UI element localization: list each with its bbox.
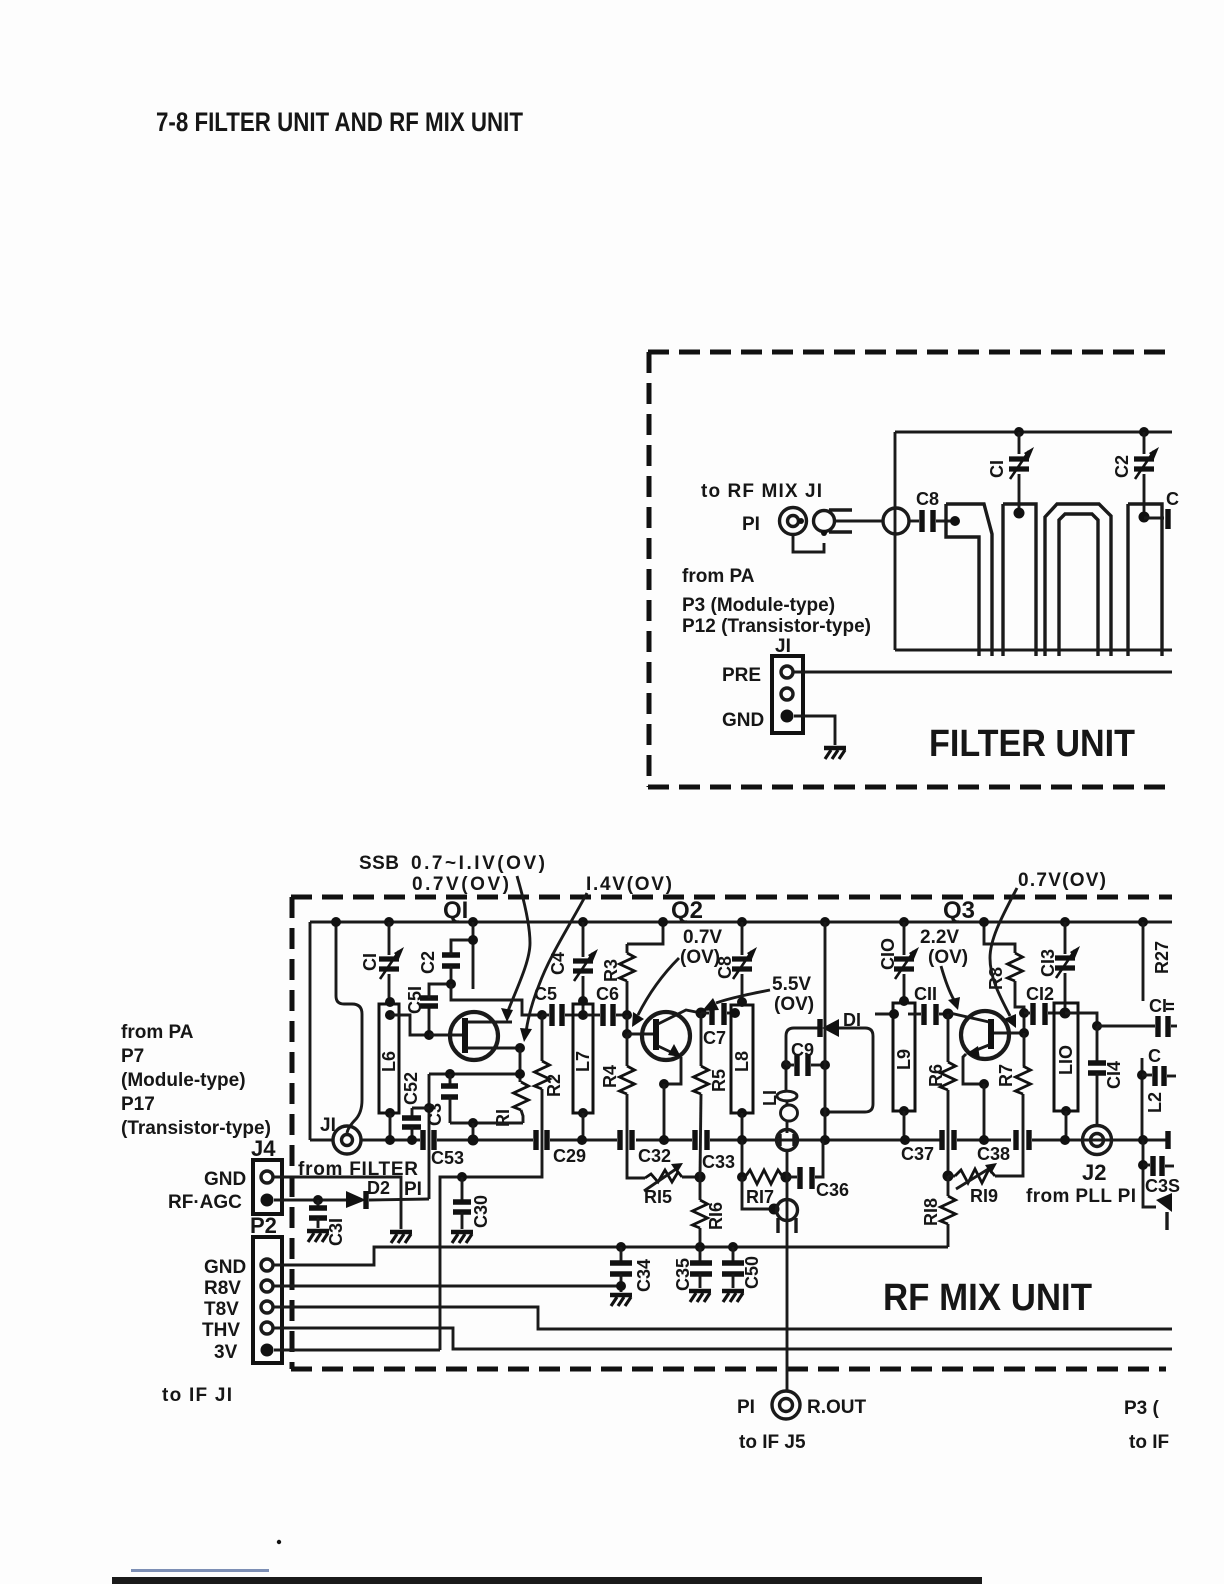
ground C30: [451, 1232, 473, 1243]
svg-text:J2: J2: [1082, 1160, 1106, 1185]
rf mix dashed border: [291, 897, 1172, 1369]
capacitor C2 (rf mix): [418, 940, 471, 984]
svg-text:RI8: RI8: [921, 1198, 941, 1226]
svg-text:DI: DI: [843, 1010, 861, 1030]
svg-text:JI: JI: [775, 636, 791, 657]
capacitor C51: [405, 984, 448, 1040]
connector P2: [253, 1237, 282, 1363]
inductor L7: [573, 996, 593, 1145]
wire L10 node to C14 C15: [1065, 1013, 1097, 1026]
svg-text:(OV): (OV): [928, 947, 968, 968]
svg-text:to IF J5: to IF J5: [739, 1432, 806, 1453]
scan speckle: [277, 1540, 281, 1544]
svg-text:THV: THV: [202, 1320, 240, 1341]
svg-text:from PA: from PA: [121, 1022, 194, 1043]
capacitor C38: [977, 1130, 1029, 1164]
wire C6 node to base: [626, 1015, 629, 1034]
svg-text:GND: GND: [204, 1257, 246, 1278]
wire RF AGC line: [274, 1199, 346, 1202]
resistor R5: [694, 1008, 730, 1178]
svg-text:L8: L8: [732, 1051, 752, 1072]
node C8 to finger A: [950, 516, 960, 526]
svg-text:RF·AGC: RF·AGC: [168, 1192, 242, 1213]
svg-text:C4: C4: [548, 952, 568, 975]
wire P2 R8V line: [274, 1285, 621, 1288]
inductor L10: [1054, 1003, 1078, 1145]
svg-text:to IF JI: to IF JI: [162, 1385, 232, 1406]
svg-text:R27: R27: [1152, 941, 1172, 974]
resistor R8: [979, 917, 1024, 1033]
wire P2 THV line: [274, 1328, 1172, 1349]
node C9 left: [781, 1060, 791, 1070]
resistor R16: [693, 1177, 727, 1246]
stripline finger C hairpin: [1045, 504, 1111, 656]
capacitor C15 (cut): [1097, 996, 1177, 1037]
svg-text:C8: C8: [916, 489, 939, 509]
trimmer C8 (rf mix): [715, 917, 757, 1002]
node R17 C36 junction: [781, 1172, 792, 1183]
svg-text:2.2V: 2.2V: [920, 927, 959, 948]
capacitor C31: [309, 1195, 346, 1246]
capacitor C52: [401, 1072, 429, 1145]
node Q3 base: [1019, 1028, 1029, 1038]
capacitor C3: [425, 1074, 458, 1126]
wire J4 GND line: [274, 1177, 401, 1229]
scan bottom band: [112, 1577, 982, 1584]
svg-text:CII: CII: [914, 984, 937, 1004]
svg-text:GND: GND: [204, 1169, 246, 1190]
svg-text:P7: P7: [121, 1046, 144, 1067]
capacitor C14: [1088, 1026, 1124, 1126]
svg-text:C5: C5: [534, 984, 557, 1004]
svg-text:QI: QI: [443, 897, 468, 924]
wire J1 GND to ground: [794, 716, 835, 745]
variable resistor R19: [948, 1094, 1023, 1206]
node Q1 source: [515, 1043, 525, 1053]
resistor R4: [600, 1034, 645, 1178]
svg-text:C3S: C3S: [1145, 1176, 1180, 1196]
svg-text:LI: LI: [760, 1090, 780, 1106]
svg-text:J4: J4: [251, 1136, 276, 1161]
wire P2 3V line: [274, 1349, 440, 1352]
rail end tick: [1165, 1131, 1170, 1149]
ground (filter J1): [824, 748, 846, 759]
svg-text:C2: C2: [418, 951, 438, 974]
wire drain jog to signal line: [451, 984, 542, 1015]
transistor Q3 (mirrored): [950, 1011, 1024, 1084]
scan blue line: [131, 1569, 269, 1572]
trimmer C10: [878, 917, 919, 1001]
svg-text:CI: CI: [987, 460, 1007, 478]
connector J2: [1083, 1126, 1112, 1155]
svg-text:R3: R3: [601, 959, 621, 982]
feedthrough bead (bottom rail): [777, 1130, 798, 1151]
leader to C7 node: [702, 990, 770, 1011]
stripline finger D: [1128, 504, 1162, 656]
resistor R27: [1138, 917, 1172, 1001]
svg-text:RF MIX UNIT: RF MIX UNIT: [883, 1277, 1092, 1319]
wire P2 T8V line: [274, 1307, 1172, 1329]
svg-text:R.OUT: R.OUT: [807, 1397, 867, 1418]
svg-text:C: C: [1166, 489, 1179, 509]
capacitor C30: [453, 1172, 491, 1229]
svg-text:C38: C38: [977, 1144, 1010, 1164]
svg-text:CI: CI: [1149, 996, 1167, 1016]
wire top rail: [310, 921, 1172, 924]
svg-text:CIO: CIO: [878, 938, 898, 970]
svg-text:CI4: CI4: [1104, 1061, 1124, 1089]
wire PRE line: [794, 671, 1172, 674]
wire C2 node to cut capacitor C3: [1144, 517, 1164, 520]
wire filter bottom line: [895, 649, 1172, 652]
svg-text:from PLL PI: from PLL PI: [1026, 1186, 1136, 1207]
wire injection vertical: [820, 917, 830, 1145]
connector P1 (filter): [780, 508, 853, 537]
wire drain stub from rail: [468, 917, 478, 989]
svg-text:D2: D2: [367, 1178, 390, 1198]
filter unit dashed border: [648, 352, 1172, 787]
node C2 bottom junction: [446, 979, 456, 989]
svg-text:C52: C52: [401, 1072, 421, 1105]
ground J4 GND: [390, 1232, 412, 1243]
resistor R7: [996, 1033, 1031, 1094]
svg-text:RI9: RI9: [970, 1186, 998, 1206]
resistor R17: [737, 1140, 783, 1207]
capacitor C5: [534, 984, 580, 1026]
resistor R3: [601, 917, 668, 1015]
node C11 R6 collector junction: [943, 1009, 954, 1020]
wire J1 riser to top rail: [336, 922, 362, 1133]
node top rail J1 riser: [331, 917, 341, 927]
wire L6 to gate jog: [390, 1015, 462, 1035]
svg-text:C: C: [1148, 1046, 1161, 1066]
feedthrough bead (output drop): [777, 1200, 798, 1234]
svg-text:0.7V: 0.7V: [683, 927, 722, 948]
feedthrough bead (filter input): [883, 508, 909, 534]
svg-text:PI: PI: [742, 514, 760, 535]
svg-text:PRE: PRE: [722, 665, 761, 686]
capacitor C6: [586, 984, 627, 1026]
svg-text:5.5V: 5.5V: [772, 974, 811, 995]
svg-text:CI2: CI2: [1026, 984, 1054, 1004]
svg-text:PI: PI: [404, 1179, 422, 1200]
connector J1 (rf mix): [333, 1126, 361, 1154]
svg-text:0.7V(OV): 0.7V(OV): [412, 874, 509, 895]
inductor L6: [379, 997, 399, 1145]
wire filter left frame: [894, 432, 897, 650]
resistor R1: [493, 1048, 529, 1127]
connector J1 (filter): [772, 656, 803, 733]
svg-text:C7: C7: [703, 1028, 726, 1048]
svg-text:P3 (: P3 (: [1124, 1398, 1160, 1419]
trimmer C1 (filter): [987, 427, 1034, 519]
ground C34: [610, 1295, 632, 1306]
ground C35: [689, 1291, 711, 1302]
svg-text:R6: R6: [926, 1064, 946, 1087]
wire P1 loop: [793, 535, 824, 552]
wire C3 R1 bottom link: [450, 1118, 523, 1146]
capacitor C12: [1024, 984, 1065, 1025]
svg-text:R8V: R8V: [204, 1278, 241, 1299]
svg-text:R4: R4: [600, 1065, 620, 1088]
wire filter top rail: [895, 431, 1172, 434]
svg-text:C36: C36: [816, 1180, 849, 1200]
svg-text:0.7V(OV): 0.7V(OV): [1018, 870, 1106, 891]
wire P2 GND line: [274, 1247, 948, 1265]
svg-text:SSB: SSB: [359, 853, 399, 874]
wire R17 branch to output bead: [742, 1177, 773, 1209]
ground C31: [307, 1231, 329, 1242]
svg-text:PI: PI: [737, 1397, 755, 1418]
svg-text:C29: C29: [553, 1146, 586, 1166]
svg-text:C53: C53: [431, 1148, 464, 1168]
diode D2: [346, 1191, 429, 1209]
svg-text:R2: R2: [544, 1074, 564, 1097]
node R15 R5 R16 junction: [695, 1172, 706, 1183]
svg-text:from PA: from PA: [682, 566, 755, 587]
inductor L8: [730, 997, 753, 1145]
svg-text:C3: C3: [425, 1103, 445, 1126]
svg-text:7-8 FILTER UNIT AND RF MIX UN: 7-8 FILTER UNIT AND RF MIX UNIT: [156, 107, 523, 137]
svg-text:C35: C35: [673, 1258, 693, 1291]
svg-text:T8V: T8V: [204, 1299, 239, 1320]
svg-text:C34: C34: [634, 1259, 654, 1292]
svg-text:C2: C2: [1112, 455, 1132, 478]
svg-text:Q3: Q3: [943, 897, 975, 924]
wire AGC vertical: [424, 1074, 434, 1199]
svg-text:C32: C32: [638, 1146, 671, 1166]
node R1 riser top: [515, 1069, 525, 1079]
leader to Q2 base: [632, 958, 679, 1027]
leader to Q3 collector node: [941, 966, 960, 1010]
node D1 loop bottom: [820, 1107, 830, 1117]
node Q2 base: [622, 1029, 632, 1039]
svg-text:P3 (Module-type): P3 (Module-type): [682, 595, 835, 616]
svg-text:3V: 3V: [214, 1342, 238, 1363]
node C3 top: [445, 1069, 455, 1079]
svg-text:C6: C6: [596, 984, 619, 1004]
svg-text:L6: L6: [379, 1051, 399, 1072]
svg-text:JI: JI: [320, 1115, 336, 1136]
capacitor C39: [1138, 1140, 1180, 1207]
leader to Q1 source: [520, 893, 587, 1042]
capacitor C34: [610, 1242, 654, 1292]
resistor R2: [440, 1010, 564, 1350]
svg-text:Q2: Q2: [671, 897, 703, 924]
svg-text:(Module-type): (Module-type): [121, 1070, 246, 1091]
capacitor C50: [722, 1242, 762, 1289]
svg-text:P12 (Transistor-type): P12 (Transistor-type): [682, 616, 871, 637]
wire left frame: [309, 922, 312, 1140]
svg-text:C33: C33: [702, 1152, 735, 1172]
capacitor C8 (filter): [909, 489, 953, 532]
trimmer C13: [1038, 917, 1080, 1013]
leader from 0.7V(OV) to Q3: [990, 888, 1017, 1028]
wire emitter to rail: [663, 1084, 666, 1140]
stripline finger B: [1003, 504, 1036, 656]
resistor R18: [921, 1176, 956, 1247]
svg-text:P17: P17: [121, 1094, 155, 1115]
svg-text:R7: R7: [996, 1064, 1016, 1087]
trimmer C1 (rf mix): [360, 917, 404, 1002]
transistor Q2: [627, 1010, 701, 1084]
svg-text:RI5: RI5: [644, 1187, 672, 1207]
svg-text:FILTER UNIT: FILTER UNIT: [929, 723, 1135, 765]
transistor Q1 (FET): [429, 1012, 520, 1060]
capacitor C7: [701, 1003, 733, 1048]
wire bottom rail segments: [310, 1139, 1168, 1142]
svg-text:CI3: CI3: [1038, 949, 1058, 977]
wire P1 to feedthrough: [834, 520, 883, 523]
stripline finger A: [946, 504, 992, 656]
svg-text:GND: GND: [722, 710, 764, 731]
svg-text:R5: R5: [709, 1069, 729, 1092]
capacitor C53: [423, 1130, 464, 1168]
svg-text:L9: L9: [894, 1049, 914, 1070]
trimmer C4: [548, 917, 598, 1015]
node C12 left: [1019, 1008, 1029, 1018]
svg-text:C8: C8: [715, 956, 735, 979]
leader to Q1 drain: [501, 876, 530, 1022]
capacitor C32: [620, 1130, 671, 1166]
node C6 R3 junction: [622, 1010, 632, 1020]
svg-text:P2: P2: [250, 1213, 277, 1238]
svg-text:to RF MIX JI: to RF MIX JI: [701, 481, 822, 502]
wire AGC top horizontal: [429, 1073, 520, 1076]
wire output drop to P1: [786, 1150, 789, 1391]
variable resistor R15: [644, 1163, 700, 1207]
capacitor C37: [901, 1130, 954, 1164]
svg-text:RI7: RI7: [746, 1187, 774, 1207]
svg-text:RI6: RI6: [706, 1202, 726, 1230]
resistor R6: [926, 1014, 956, 1176]
capacitor C11: [908, 984, 948, 1025]
capacitor C29: [536, 1130, 586, 1166]
capacitor C36: [786, 1140, 849, 1200]
diode D1 loop: [786, 1010, 873, 1112]
ground C39 (chassis): [1156, 1193, 1172, 1230]
connector P1 R.OUT: [772, 1391, 800, 1419]
svg-text:C37: C37: [901, 1144, 934, 1164]
node Q2 emitter drop: [659, 1079, 669, 1089]
svg-text:C9: C9: [791, 1040, 814, 1060]
svg-text:(OV): (OV): [774, 994, 814, 1015]
svg-text:L7: L7: [573, 1051, 593, 1072]
svg-text:to IF: to IF: [1129, 1432, 1169, 1453]
svg-text:(Transistor-type): (Transistor-type): [121, 1118, 271, 1139]
svg-text:0.7~I.IV(OV): 0.7~I.IV(OV): [411, 853, 545, 874]
svg-text:CI: CI: [360, 953, 380, 971]
node R18 R19 junction: [943, 1171, 954, 1182]
svg-text:C50: C50: [742, 1256, 762, 1289]
svg-text:C30: C30: [471, 1195, 491, 1228]
trimmer C2 (filter): [1112, 427, 1159, 523]
capacitor C33: [695, 1130, 735, 1172]
node Q3 emitter drop: [979, 1079, 989, 1089]
inductor L2 branch (cut): [1137, 1046, 1176, 1145]
wire mixer output line to L9: [875, 1013, 893, 1016]
inductor L9: [889, 996, 915, 1145]
svg-text:LIO: LIO: [1056, 1045, 1076, 1075]
svg-text:L2: L2: [1145, 1092, 1165, 1113]
svg-text:from FILTER: from FILTER: [298, 1159, 418, 1180]
capacitor C35: [673, 1242, 712, 1291]
inductor L1 coil: [760, 1065, 798, 1133]
capacitor C9: [786, 1040, 825, 1076]
ground C50: [722, 1291, 744, 1302]
svg-text:C5I: C5I: [405, 986, 425, 1014]
node C9 right: [820, 1060, 830, 1070]
connector J4: [253, 1160, 282, 1214]
wire Q3 emitter to rail: [983, 1084, 986, 1140]
